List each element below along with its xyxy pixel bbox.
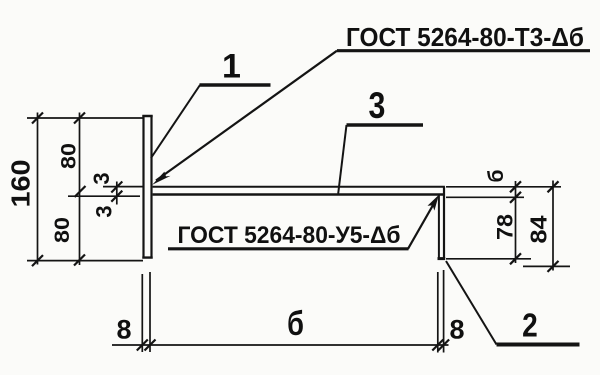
right vertical plate (part 2) [438, 187, 446, 259]
tick 78 bottom [510, 253, 521, 264]
weld callout T3 arrowhead [152, 172, 170, 185]
dimension line 6/78 [515, 181, 517, 263]
svg-text:ГОСТ 5264-80-Т3-Δб: ГОСТ 5264-80-Т3-Δб [346, 22, 584, 52]
tick 84 bottom [548, 261, 559, 272]
left vertical plate (part 1) [142, 116, 152, 259]
tick 6 bottom [510, 192, 521, 203]
weld callout U5 arrowhead [428, 195, 439, 211]
svg-text:б: б [287, 304, 304, 343]
weld callout T3 leader [156, 51, 337, 181]
tick 3 lower [111, 191, 122, 202]
svg-text:3: 3 [369, 85, 386, 127]
extension line top left [27, 117, 143, 119]
extension line mid right (plate underside) [446, 196, 524, 198]
extension line bottom right 78 [446, 258, 531, 260]
weld leg dimension line 3 upper [103, 186, 144, 188]
svg-text:8: 8 [449, 315, 464, 345]
svg-text:78: 78 [493, 214, 518, 240]
tick 80 top [74, 113, 85, 124]
weld leg dimension line (vertical) [116, 182, 118, 205]
tick 84 top [548, 181, 559, 192]
svg-text:ГОСТ 5264-80-У5-Δб: ГОСТ 5264-80-У5-Δб [178, 222, 401, 249]
bottom extension lines of left plate [142, 272, 150, 352]
svg-text:б: б [485, 169, 508, 182]
svg-text:2: 2 [522, 307, 538, 344]
tick 160 top [32, 113, 43, 124]
svg-text:84: 84 [526, 215, 552, 243]
extension line top right [446, 186, 561, 188]
tick bottom 8 left a [137, 340, 148, 351]
dimension line 160 [37, 113, 39, 265]
tick bottom 8 right a [432, 340, 443, 351]
svg-text:8: 8 [116, 315, 131, 345]
bottom dimension line [112, 344, 449, 346]
item label 1 underline [200, 83, 271, 87]
tick 80 bottom [74, 255, 85, 266]
extension line bottom right 84 [523, 265, 570, 267]
item label 1 leader [151, 85, 200, 158]
weld callout T3 underline [337, 49, 590, 52]
svg-text:1: 1 [222, 48, 241, 86]
bottom extension lines of right plate [438, 270, 444, 353]
svg-text:3: 3 [92, 205, 117, 217]
dimension line 80/80 [79, 113, 81, 266]
item label 2 leader [446, 261, 497, 345]
item label 2 underline [497, 343, 580, 347]
weld leg dimension line 3 lower [68, 195, 140, 197]
tick 6 top [510, 181, 521, 192]
item label 3 leader [338, 125, 346, 194]
tick 3 upper [111, 182, 122, 193]
svg-text:80: 80 [51, 217, 74, 243]
item label 3 underline [347, 123, 424, 126]
dimension line 84 [552, 181, 554, 271]
tick bottom 8 left b [145, 340, 156, 351]
weld callout U5 leader [408, 199, 437, 249]
svg-text:3: 3 [89, 172, 114, 184]
weld callout U5 underline [168, 247, 409, 250]
tick bottom 8 right b [438, 340, 449, 351]
tick 80 middle [75, 186, 86, 197]
horizontal plate (part 3) [153, 187, 445, 195]
svg-text:160: 160 [6, 160, 36, 208]
extension line bottom left [27, 260, 143, 262]
tick 160 bottom [32, 255, 43, 266]
svg-text:80: 80 [58, 143, 81, 169]
